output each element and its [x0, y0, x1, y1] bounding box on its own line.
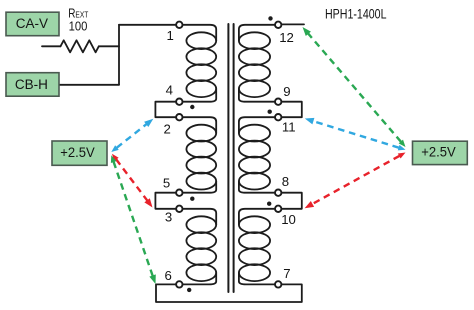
wire: junction to pin 1 [119, 24, 176, 26]
svg-text:HPH1-1400L: HPH1-1400L [325, 7, 387, 22]
phase dot near pin 6 [187, 288, 191, 292]
svg-text:CA-V: CA-V [16, 16, 48, 31]
phase dot near pin 10 [267, 202, 271, 206]
red dashed arrow: left +2.5V to junction of pins 5-3 [110, 152, 156, 209]
pin 10 terminal [275, 206, 281, 212]
svg-text:+2.5V: +2.5V [421, 144, 456, 159]
winding pins 10-7 (right bottom) [239, 209, 275, 225]
svg-text:3: 3 [165, 210, 172, 225]
wire: left bracket joining pins 5 and 3 [155, 193, 176, 209]
pin 11 terminal [275, 114, 281, 120]
svg-text:6: 6 [165, 268, 172, 283]
pin 12 terminal [275, 22, 281, 28]
svg-text:1: 1 [167, 28, 174, 43]
pin 6 terminal [176, 281, 182, 287]
svg-text:CB-H: CB-H [15, 77, 48, 92]
pin number labels [163, 28, 296, 283]
svg-text:+2.5V: +2.5V [60, 145, 95, 160]
svg-text:7: 7 [283, 266, 290, 281]
svg-text:9: 9 [283, 84, 290, 99]
wire: resistor left lead [42, 45, 61, 47]
transformer core line right [233, 24, 235, 292]
wire: junction vertical line [118, 25, 120, 85]
phase dots [187, 16, 273, 292]
svg-text:8: 8 [282, 174, 289, 189]
wire: resistor right lead to junction [99, 45, 119, 47]
pin 1 terminal [176, 22, 182, 28]
label box CA-V [6, 12, 59, 36]
phase dot near pin 12 [268, 16, 272, 20]
pin 3 terminal [176, 206, 182, 212]
wire: pin 12 lead to right [281, 23, 304, 25]
phase dot near pin 5 [190, 197, 194, 201]
green dashed arrow: right +2.5V to pin 12 lead [300, 25, 408, 149]
winding pins 1-4 (left top) [182, 25, 216, 41]
blue dashed arrow: right +2.5V to junction of pins 9-11 [304, 115, 407, 152]
winding pins 11-8 (right middle) [239, 117, 275, 133]
winding pins 3-6 (left bottom) [182, 209, 216, 225]
wire: right bracket joining pins 9 and 11 [281, 102, 302, 118]
winding pins 12-9 (right top) [239, 25, 275, 41]
transformer core line left [227, 24, 229, 292]
svg-text:10: 10 [281, 212, 296, 227]
wire: bottom bracket joining pins 6 and 7 [156, 284, 302, 302]
label box +2.5V left [52, 141, 107, 165]
pin 7 terminal [275, 281, 281, 287]
svg-text:5: 5 [163, 176, 170, 191]
svg-text:11: 11 [282, 120, 296, 135]
svg-text:12: 12 [279, 30, 294, 45]
winding pins 2-5 (left middle) [182, 117, 216, 133]
label box +2.5V right [413, 141, 468, 164]
wire: CB-H to junction [59, 84, 119, 86]
pin 8 terminal [275, 190, 281, 196]
pin 5 terminal [176, 190, 182, 196]
label box CB-H [6, 73, 59, 97]
pin 4 terminal [176, 99, 182, 105]
pin terminals (circles) [176, 22, 281, 288]
wire: left bracket joining pins 4 and 2 [155, 102, 176, 118]
green dashed arrow: left +2.5V to pin 6 corner [109, 154, 159, 285]
svg-text:4: 4 [166, 83, 173, 98]
resistor R_EXT zigzag [61, 40, 99, 52]
svg-text:100: 100 [69, 18, 88, 33]
svg-text:2: 2 [164, 121, 171, 136]
blue dashed arrow: left +2.5V to junction of pins 4-2 [110, 116, 156, 154]
phase dot near pin 11 [268, 110, 272, 114]
wire: right bracket joining pins 8 and 10 [281, 193, 302, 209]
pin 9 terminal [275, 99, 281, 105]
pin 2 terminal [176, 114, 182, 120]
phase dot near pin 4 [190, 105, 194, 109]
red dashed arrow: right +2.5V to junction of pins 8-10 [303, 150, 407, 211]
